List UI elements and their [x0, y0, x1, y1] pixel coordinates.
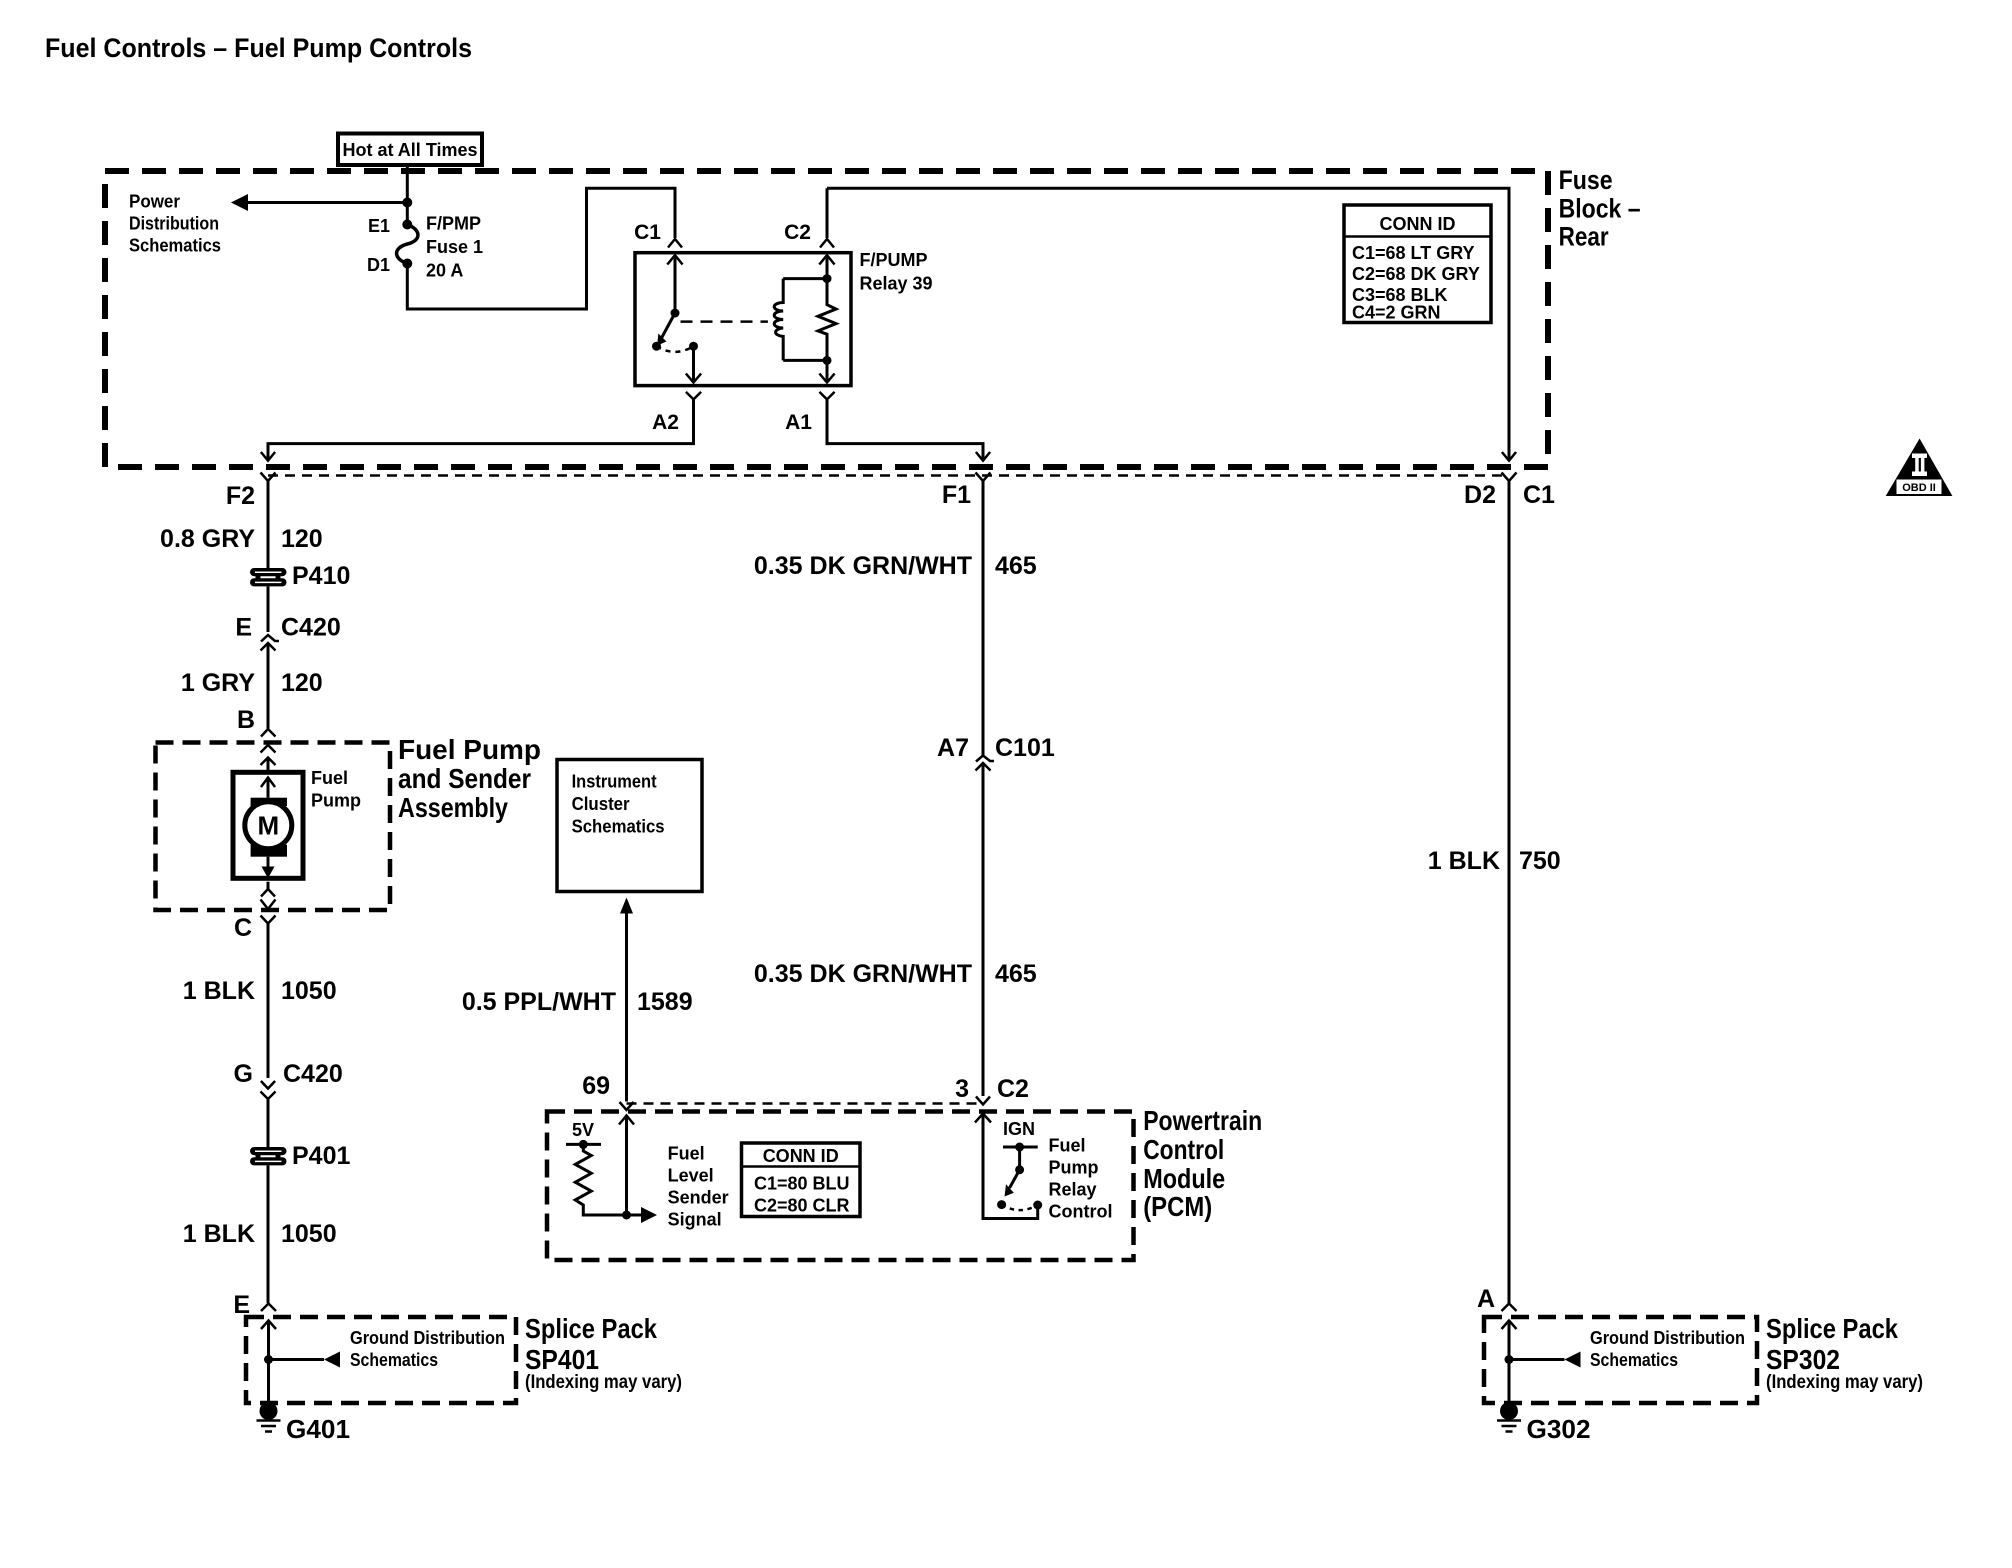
- arrowhead power distribution: [231, 194, 248, 211]
- svg-text:A2: A2: [652, 411, 679, 434]
- svg-text:0.35 DK GRN/WHT: 0.35 DK GRN/WHT: [754, 960, 972, 988]
- svg-text:A: A: [1477, 1285, 1495, 1313]
- svg-text:1 GRY: 1 GRY: [181, 669, 255, 697]
- svg-text:Instrument: Instrument: [572, 772, 657, 792]
- relay coil: [774, 279, 783, 361]
- node D1: [402, 259, 412, 269]
- svg-text:Fuel: Fuel: [311, 768, 348, 788]
- svg-text:5V: 5V: [572, 1120, 594, 1140]
- svg-text:Control: Control: [1143, 1134, 1224, 1165]
- svg-text:G401: G401: [286, 1414, 350, 1444]
- coil bottom wire: [783, 359, 827, 362]
- relay A2 internal wire with arrow: [692, 346, 695, 381]
- SP401 branch arrowhead: [324, 1352, 340, 1368]
- svg-text:Hot at All Times: Hot at All Times: [342, 140, 477, 160]
- connector 69: [620, 1102, 634, 1110]
- svg-text:Powertrain: Powertrain: [1143, 1105, 1262, 1136]
- svg-text:Rear: Rear: [1559, 221, 1609, 251]
- node coil bottom: [823, 356, 832, 365]
- wire fuse D1 to relay C1: [407, 188, 675, 309]
- svg-text:Pump: Pump: [1049, 1158, 1099, 1178]
- svg-text:IGN: IGN: [1003, 1119, 1035, 1139]
- node junction at fuse top: [402, 198, 412, 208]
- PCM left entry arrow: [619, 1116, 634, 1125]
- svg-text:G302: G302: [1527, 1414, 1591, 1444]
- svg-text:Relay: Relay: [1049, 1180, 1097, 1200]
- IGN bar: [1003, 1146, 1038, 1149]
- svg-text:C2: C2: [784, 221, 811, 244]
- 5V node: [579, 1140, 588, 1149]
- svg-text:Level: Level: [668, 1166, 714, 1186]
- svg-text:Relay 39: Relay 39: [860, 274, 933, 294]
- svg-text:465: 465: [995, 552, 1037, 580]
- svg-text:69: 69: [582, 1072, 610, 1100]
- assembly exit Y: [267, 882, 270, 889]
- svg-text:C420: C420: [281, 614, 341, 642]
- svg-text:20 A: 20 A: [426, 261, 463, 281]
- node E1: [402, 220, 412, 230]
- svg-text:A1: A1: [785, 411, 812, 434]
- svg-text:Ground Distribution: Ground Distribution: [1590, 1328, 1745, 1348]
- connector F1: [976, 473, 991, 482]
- svg-text:0.35 DK GRN/WHT: 0.35 DK GRN/WHT: [754, 552, 972, 580]
- svg-text:Fuel: Fuel: [1049, 1136, 1086, 1156]
- switch left node PCM: [997, 1200, 1006, 1209]
- svg-text:1 BLK: 1 BLK: [183, 977, 255, 1005]
- wire from hot box to junction: [406, 165, 409, 225]
- svg-text:Schematics: Schematics: [129, 236, 221, 256]
- PCM relay control entry arrow: [975, 1114, 991, 1123]
- svg-text:Schematics: Schematics: [572, 817, 665, 837]
- svg-text:0.5 PPL/WHT: 0.5 PPL/WHT: [462, 988, 616, 1016]
- connector C420 G (inline, down): [261, 1081, 275, 1089]
- svg-text:3: 3: [955, 1075, 969, 1103]
- svg-text:Splice Pack: Splice Pack: [525, 1313, 657, 1344]
- IGN stem: [1018, 1147, 1021, 1170]
- svg-text:P401: P401: [292, 1142, 350, 1170]
- motor brush bottom: [251, 845, 287, 857]
- motor exit wire and arrow: [267, 857, 270, 869]
- SP401 internal wire: [267, 1321, 270, 1403]
- IGN node: [1015, 1143, 1024, 1152]
- wire A2 to F2: [268, 399, 694, 459]
- svg-text:750: 750: [1519, 847, 1561, 875]
- svg-text:Fuse: Fuse: [1559, 165, 1613, 195]
- svg-text:0.8 GRY: 0.8 GRY: [160, 525, 255, 553]
- svg-text:OBD II: OBD II: [1902, 482, 1936, 494]
- signal junction node: [622, 1211, 631, 1220]
- motor brush top: [251, 798, 287, 806]
- coil top wire: [783, 277, 827, 280]
- svg-text:Block –: Block –: [1559, 193, 1641, 223]
- svg-text:Assembly: Assembly: [398, 792, 508, 823]
- node switch right: [1033, 1201, 1042, 1210]
- svg-text:Power: Power: [129, 192, 180, 212]
- SP401 junction node: [264, 1355, 273, 1364]
- connector A2 below relay: [686, 392, 701, 400]
- svg-text:120: 120: [281, 669, 323, 697]
- svg-text:Fuel Pump: Fuel Pump: [398, 734, 541, 765]
- 5V bar: [566, 1143, 601, 1146]
- svg-text:Module: Module: [1143, 1163, 1225, 1194]
- fuel pump and sender assembly dashed box: [156, 743, 391, 911]
- svg-text:SP302: SP302: [1766, 1344, 1840, 1375]
- wire A1 to F1: [827, 399, 983, 459]
- relay NC contact node: [652, 342, 661, 351]
- assembly exit chevron at border: [261, 900, 276, 910]
- connector C420 E (inline, up): [261, 635, 279, 642]
- svg-text:C4=2 GRN: C4=2 GRN: [1352, 303, 1441, 323]
- wire C420 to B: [267, 643, 270, 729]
- svg-text:(Indexing may vary): (Indexing may vary): [525, 1372, 682, 1393]
- SP302 junction node: [1505, 1355, 1514, 1364]
- SP302 branch arrowhead: [1565, 1352, 1581, 1368]
- svg-text:Cluster: Cluster: [572, 794, 630, 814]
- svg-text:B: B: [237, 706, 255, 734]
- svg-text:F1: F1: [942, 481, 971, 509]
- splice pack SP401 dashed box: [246, 1317, 516, 1403]
- svg-text:Control: Control: [1049, 1202, 1113, 1222]
- relay actuator dashed link: [681, 320, 768, 323]
- svg-text:Splice Pack: Splice Pack: [1766, 1313, 1898, 1344]
- relay C2 entry arrow: [819, 255, 834, 264]
- svg-text:(Indexing may vary): (Indexing may vary): [1766, 1372, 1923, 1393]
- connector B (female chevron): [261, 729, 276, 737]
- svg-text:C2=80 CLR: C2=80 CLR: [754, 1196, 850, 1216]
- relay switch pivot node: [671, 309, 680, 318]
- PCM connector boundary thin dashed line: [627, 1102, 984, 1105]
- relay C1 entry arrow: [667, 255, 682, 264]
- SP401 entry arrow: [261, 1321, 276, 1330]
- svg-text:120: 120: [281, 525, 323, 553]
- svg-text:1050: 1050: [281, 1220, 337, 1248]
- connector C below assembly: [261, 916, 276, 924]
- relay NO contact node: [689, 342, 698, 351]
- fuel pump motor box: [233, 772, 303, 878]
- svg-text:C2=68 DK GRY: C2=68 DK GRY: [1352, 264, 1480, 284]
- svg-text:and Sender: and Sender: [398, 763, 531, 794]
- wire P401 to E: [267, 1165, 270, 1303]
- svg-text:1050: 1050: [281, 977, 337, 1005]
- wire P410 to C420: [267, 586, 270, 632]
- svg-text:P410: P410: [292, 562, 350, 590]
- svg-text:Signal: Signal: [668, 1210, 722, 1230]
- OBD II triangle: [1886, 439, 1953, 497]
- arrow into fuse block bottom at F1: [976, 452, 990, 461]
- PCM dashed box: [547, 1112, 1134, 1261]
- relay switch dashed arc: [657, 346, 694, 352]
- svg-text:CONN ID: CONN ID: [763, 1146, 839, 1166]
- ground G302: [1500, 1402, 1518, 1420]
- svg-text:A7: A7: [937, 734, 969, 762]
- svg-text:C1: C1: [634, 221, 661, 244]
- arrow into fuse block bottom at D2: [1502, 452, 1516, 461]
- svg-text:Schematics: Schematics: [1590, 1350, 1678, 1370]
- svg-text:1589: 1589: [637, 988, 693, 1016]
- signal arrowhead: [641, 1207, 657, 1223]
- PCM pullup resistor: [575, 1144, 641, 1215]
- wire relay C2 to D2 drop: [827, 188, 1509, 459]
- svg-text:Ground Distribution: Ground Distribution: [350, 1328, 505, 1348]
- SP401 branch wire: [269, 1358, 325, 1361]
- svg-text:Fuse 1: Fuse 1: [426, 237, 483, 257]
- svg-text:Fuel Controls – Fuel Pump Cont: Fuel Controls – Fuel Pump Controls: [45, 33, 472, 63]
- connector C1 relay (female chevron): [668, 239, 682, 248]
- grommet P401: [250, 1147, 287, 1165]
- switch dashed arc PCM: [1002, 1205, 1038, 1211]
- svg-text:F/PMP: F/PMP: [426, 214, 481, 234]
- svg-text:G: G: [234, 1060, 253, 1088]
- svg-text:1 BLK: 1 BLK: [1428, 847, 1500, 875]
- arrow to instrument cluster: [620, 898, 633, 914]
- svg-text:C1: C1: [1523, 481, 1555, 509]
- svg-text:E: E: [235, 614, 252, 642]
- connector 3/C2: [976, 1097, 990, 1105]
- svg-text:M: M: [257, 811, 279, 841]
- svg-text:D2: D2: [1464, 481, 1496, 509]
- switch pivot node PCM: [1015, 1165, 1024, 1174]
- connector boundary thin dashed line F2-F1-D2: [268, 474, 1509, 477]
- SP302 entry arrow: [1502, 1321, 1517, 1330]
- instrument cluster schematics box: [557, 760, 702, 892]
- wire C2 stub above relay: [826, 188, 829, 238]
- connector A7/C101 inline: [976, 756, 994, 762]
- connector F2: [261, 473, 276, 482]
- assembly entry double chevron: [261, 745, 276, 753]
- svg-text:CONN ID: CONN ID: [1380, 214, 1456, 234]
- switch blade PCM: [1010, 1170, 1020, 1188]
- conn id box fuse block: [1344, 205, 1491, 323]
- svg-text:C420: C420: [283, 1060, 343, 1088]
- hot at all times box: [338, 134, 482, 166]
- svg-text:SP401: SP401: [525, 1344, 599, 1375]
- grommet P410: [250, 568, 287, 586]
- PCM CONN ID box: [742, 1143, 861, 1217]
- relay resistor: [818, 279, 836, 361]
- svg-text:C1=68 LT GRY: C1=68 LT GRY: [1352, 243, 1475, 263]
- motor entry arrow: [261, 778, 275, 788]
- PCM sender wire: [625, 1116, 628, 1216]
- svg-text:Distribution: Distribution: [129, 214, 219, 234]
- connector A splice chevron: [1502, 1304, 1517, 1312]
- relay 39 box: [635, 253, 851, 386]
- svg-text:C101: C101: [995, 734, 1055, 762]
- svg-text:Pump: Pump: [311, 791, 361, 811]
- svg-text:1 BLK: 1 BLK: [183, 1220, 255, 1248]
- svg-text:E1: E1: [368, 216, 390, 236]
- connector E splice chevron: [261, 1304, 276, 1312]
- splice pack SP302 dashed box: [1484, 1317, 1757, 1403]
- svg-text:C: C: [234, 914, 252, 942]
- svg-text:(PCM): (PCM): [1143, 1191, 1212, 1222]
- svg-text:F2: F2: [226, 482, 255, 510]
- connector D2/C1: [1502, 473, 1517, 482]
- SP302 branch wire: [1509, 1358, 1565, 1361]
- motor circle M: [245, 802, 292, 849]
- wire 1589 to instrument cluster: [625, 912, 628, 1102]
- connector A1 below relay: [819, 392, 834, 400]
- connector C2 relay (female chevron): [820, 239, 834, 248]
- relay switch blade with arrowhead: [662, 313, 676, 338]
- svg-text:465: 465: [995, 960, 1037, 988]
- svg-text:Sender: Sender: [668, 1188, 729, 1208]
- relay A1 internal wire with arrow: [826, 360, 829, 381]
- wire to power distribution arrow: [240, 201, 407, 204]
- svg-text:C1=80 BLU: C1=80 BLU: [754, 1174, 850, 1194]
- svg-text:D1: D1: [367, 255, 390, 275]
- ground G401: [260, 1402, 278, 1420]
- node coil top: [823, 274, 832, 283]
- svg-text:C2: C2: [997, 1075, 1029, 1103]
- arrow into fuse block bottom at F2: [261, 452, 275, 461]
- fuse F/PMP Fuse 1 20A symbol: [397, 225, 418, 264]
- svg-text:Schematics: Schematics: [350, 1350, 438, 1370]
- svg-text:F/PUMP: F/PUMP: [860, 250, 928, 270]
- fuse block rear dashed box: [105, 171, 1548, 467]
- PCM relay control wire: [983, 1114, 1038, 1219]
- SP302 internal wire: [1508, 1321, 1511, 1403]
- svg-text:Fuel: Fuel: [668, 1144, 705, 1164]
